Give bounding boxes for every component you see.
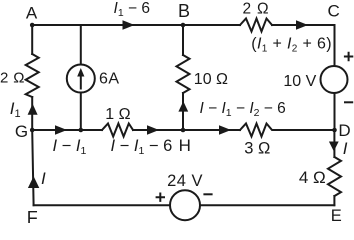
arrowhead I1 up left [28,104,38,115]
svg-text:I1: I1 [10,99,21,120]
wire 6A source branch [80,25,82,130]
svg-text:10 V: 10 V [283,73,316,90]
svg-text:A: A [26,4,38,23]
svg-text:H: H [179,136,191,155]
arrowhead 10ohm branch up [178,101,188,111]
node D dot [332,128,337,133]
arrowhead top wire near C [296,20,308,30]
svg-text:I − I1: I − I1 [53,137,87,157]
6A source internal arrowhead [77,68,84,77]
wire D-E right lower vertical [333,130,335,205]
svg-text:C: C [327,2,339,21]
resistor 1ohm [102,124,133,137]
svg-text:I − I1 − I2 − 6: I − I1 − I2 − 6 [200,100,286,119]
svg-text:I: I [41,169,46,188]
svg-text:10 Ω: 10 Ω [194,71,228,88]
svg-text:F: F [27,208,38,223]
arrowhead middle before 3ohm [219,125,231,135]
svg-text:24 V: 24 V [167,172,203,190]
svg-text:G: G [15,122,28,141]
resistor 10ohm [177,55,190,93]
node B dot [181,23,186,28]
resistor 2ohm left [26,54,39,97]
label plus 10V [344,52,353,61]
arrowhead middle after G [55,125,67,135]
arrowhead right vertical down [329,142,339,152]
arrowhead middle after 1ohm [147,125,159,135]
junction dot 6A bottom [79,128,84,133]
arrowhead top wire I1-6 [123,20,135,30]
svg-text:E: E [331,207,342,223]
svg-text:I − I1 − 6: I − I1 − 6 [111,137,173,157]
svg-text:3 Ω: 3 Ω [244,139,270,157]
svg-text:2 Ω: 2 Ω [242,0,269,17]
resistor 3ohm [240,124,275,137]
wire C-D right vertical [334,25,336,130]
node H dot [181,128,186,133]
node A dot [30,23,35,28]
svg-text:6A: 6A [99,70,120,87]
wire G-F lower left vertical [32,130,33,205]
voltage source 10V circle [321,66,348,93]
label minus 24V [203,193,212,195]
wire A-B-C top [32,24,334,26]
6A source internal arrow shaft [80,74,82,89]
wire B-H vertical branch [182,25,184,130]
wire A-G left vertical [31,25,33,130]
svg-text:I1 − 6: I1 − 6 [114,0,150,19]
voltage source 24V circle [170,190,200,220]
label plus 24V [156,193,165,202]
resistor 4ohm [328,157,341,196]
svg-text:I: I [343,139,348,158]
arrowhead lower left up [28,176,39,188]
svg-text:D: D [338,121,350,140]
svg-text:4 Ω: 4 Ω [299,168,326,187]
resistor 2ohm top [240,19,272,32]
svg-text:1 Ω: 1 Ω [105,106,130,123]
current source 6A circle [67,65,95,93]
node G dot [30,128,35,133]
label minus 10V [344,101,353,103]
svg-text:B: B [178,1,190,21]
svg-text:2 Ω: 2 Ω [0,70,25,87]
svg-text:(I1 + I2 + 6): (I1 + I2 + 6) [251,35,332,54]
wire F-E bottom [34,204,335,206]
wire G-H-D middle [32,129,334,131]
